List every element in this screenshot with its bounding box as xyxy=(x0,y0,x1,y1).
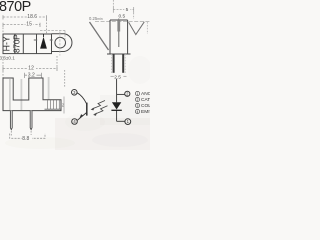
svg-text:12: 12 xyxy=(28,65,34,71)
svg-text:870P: 870P xyxy=(0,0,31,15)
svg-text:0.25min: 0.25min xyxy=(89,16,103,21)
svg-text:5: 5 xyxy=(126,7,129,13)
svg-text:ANODE: ANODE xyxy=(141,91,150,97)
svg-text:2: 2 xyxy=(137,98,139,102)
svg-text:COLLECTOR: COLLECTOR xyxy=(141,103,150,109)
svg-text:870P: 870P xyxy=(11,34,21,53)
svg-text:15: 15 xyxy=(26,22,32,28)
svg-text:0.5: 0.5 xyxy=(119,14,126,20)
svg-text:H-Y: H-Y xyxy=(2,36,12,51)
svg-text:4: 4 xyxy=(137,110,139,114)
svg-text:3: 3 xyxy=(137,104,139,108)
svg-text:8.8: 8.8 xyxy=(22,136,29,142)
svg-text:18.6: 18.6 xyxy=(27,14,37,20)
svg-text:EMITTER: EMITTER xyxy=(141,109,150,115)
svg-text:2.5: 2.5 xyxy=(114,75,121,81)
svg-text:3.6±0.1: 3.6±0.1 xyxy=(0,55,15,60)
svg-text:CATHODE: CATHODE xyxy=(141,97,150,103)
svg-text:1: 1 xyxy=(137,92,139,96)
